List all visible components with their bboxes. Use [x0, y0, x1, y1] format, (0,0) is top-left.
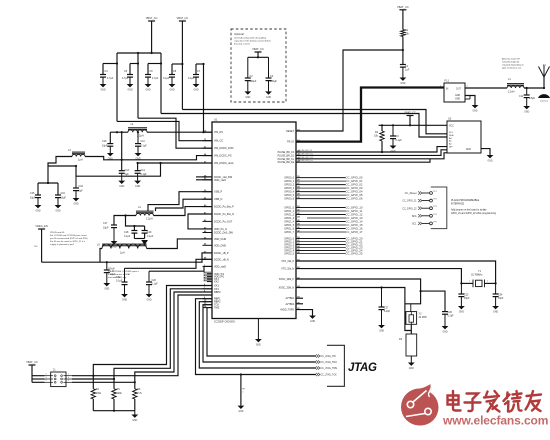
- capacitor C15: [35, 194, 41, 196]
- JTAG pin labels: [316, 354, 320, 357]
- svg-text:GND: GND: [379, 330, 384, 332]
- svg-text:CC_GPIO_06: CC_GPIO_06: [346, 197, 363, 201]
- svg-text:GND: GND: [524, 111, 529, 113]
- svg-text:0.1µF: 0.1µF: [124, 235, 131, 238]
- inductor L5: [102, 245, 147, 247]
- svg-text:6: 6: [68, 380, 69, 382]
- resistor R1: [401, 30, 405, 37]
- wire - L1 to antenna: [524, 87, 544, 89]
- wire - FL1 gnd: [465, 96, 475, 106]
- svg-text:For 45 can be used as GPIO_21: For 45 can be used as GPIO_21 if a: [50, 240, 86, 243]
- svg-text:VBAT_CC: VBAT_CC: [397, 5, 409, 9]
- svg-text:Antenna match (Pi: Antenna match (Pi: [502, 58, 521, 61]
- connector J1: [51, 372, 66, 387]
- svg-text:Use bulk-sizing wafer decoupli: Use bulk-sizing wafer decoupling: [234, 37, 267, 40]
- svg-text:GPIO1_3: GPIO1_3: [284, 218, 294, 220]
- capacitor C10: [107, 143, 113, 145]
- svg-text:For CC2530F, CC2533F parts a: For CC2530F, CC2533F parts a: [108, 270, 140, 273]
- ground - cap pair arrow: [133, 233, 135, 238]
- wire - caps to IC pins: [125, 259, 213, 268]
- svg-text:GND: GND: [238, 411, 243, 413]
- svg-text:Add jumper on the board to iso: Add jumper on the board to isolate: [451, 209, 487, 212]
- svg-text:GND: GND: [459, 311, 464, 313]
- svg-text:0.1µF: 0.1µF: [163, 77, 170, 80]
- svg-text:0.5pF: 0.5pF: [529, 97, 536, 100]
- wire - cap bank bus verticals: [116, 53, 118, 121]
- svg-text:XOSC_32M_P: XOSC_32M_P: [279, 279, 295, 281]
- svg-text:CC_GPIO_21: CC_GPIO_21: [402, 201, 417, 203]
- svg-text:GND: GND: [73, 203, 78, 205]
- wire - J1 to pull resistors: [72, 375, 93, 377]
- wire - GPIO bank 3: [296, 237, 363, 256]
- svg-text:SDA: SDA: [449, 134, 454, 137]
- svg-text:GND: GND: [466, 149, 471, 151]
- watermark text: [448, 391, 542, 412]
- svg-text:C12: C12: [519, 95, 524, 98]
- svg-text:GPIO2_0: GPIO2_0: [284, 239, 294, 241]
- capacitor C8b reset filter: [400, 64, 406, 66]
- svg-text:VBAT_CC: VBAT_CC: [26, 360, 38, 364]
- svg-text:GPIO0_1: GPIO0_1: [284, 181, 294, 183]
- svg-text:3: 3: [46, 377, 47, 379]
- wire - bus to AVDD pin 1: [204, 64, 213, 132]
- ground - FL1: [472, 105, 479, 108]
- resistor R4: [92, 376, 94, 389]
- wire - RF thick trace from IC: [296, 88, 444, 142]
- svg-text:1: 1: [469, 281, 470, 283]
- svg-text:PLACE PROGRAMMABLE: PLACE PROGRAMMABLE: [451, 199, 480, 202]
- svg-text:100k: 100k: [117, 392, 123, 395]
- wire - bus over IC #2: [161, 114, 447, 138]
- wire - L5 ends: [100, 249, 102, 263]
- svg-text:GND: GND: [111, 246, 116, 248]
- svg-text:GPIO0_5: GPIO0_5: [284, 195, 294, 197]
- antenna chip body: [538, 94, 550, 98]
- svg-text:GND: GND: [146, 299, 151, 301]
- svg-text:CC_GPIO_05: CC_GPIO_05: [346, 193, 363, 197]
- svg-text:INTERFACE: INTERFACE: [451, 203, 465, 206]
- svg-text:GPIO2_2: GPIO2_2: [284, 245, 294, 247]
- svg-text:C18: C18: [124, 231, 129, 234]
- svg-text:GND: GND: [455, 99, 460, 101]
- ground - R3: [410, 356, 412, 363]
- svg-text:CC_GPIO_11: CC_GPIO_11: [346, 209, 363, 213]
- svg-text:VDD_xtal2: VDD_xtal2: [214, 265, 227, 268]
- svg-text:GPIO1_1: GPIO1_1: [284, 211, 294, 213]
- capacitor C6: [147, 64, 149, 75]
- svg-text:GND: GND: [104, 288, 109, 290]
- wire - AVTB stubs: [296, 297, 303, 299]
- inductor L4: [136, 212, 154, 214]
- ground - C9: [392, 139, 394, 146]
- svg-text:GND: GND: [472, 110, 477, 112]
- wire - 32k xtal net A: [296, 261, 496, 283]
- svg-text:0.1µF: 0.1µF: [188, 77, 195, 80]
- svg-text:GND: GND: [100, 89, 105, 91]
- svg-text:FL1: FL1: [445, 79, 450, 83]
- wire - FL1 out to L1: [465, 87, 507, 89]
- wire - reset branch R2: [381, 151, 383, 153]
- svg-text:C14: C14: [141, 169, 146, 172]
- svg-text:10µF: 10µF: [103, 227, 109, 230]
- wire - JTAG staircase from IC: [196, 299, 317, 375]
- svg-text:GND: GND: [55, 210, 60, 212]
- wire - bus over IC #1: [182, 110, 447, 134]
- svg-text:CC_GPIO_03: CC_GPIO_03: [346, 186, 363, 190]
- wire - 32k xtal net B: [296, 269, 461, 284]
- svg-text:10µF: 10µF: [61, 197, 67, 200]
- inductor L3: [72, 153, 85, 155]
- crystal Y2 32MHz: [410, 304, 412, 312]
- svg-text:1µF: 1µF: [79, 190, 84, 193]
- wire - VBAT to J1 pins: [32, 375, 45, 377]
- svg-text:DCDC_Po_OUT: DCDC_Po_OUT: [214, 220, 233, 223]
- capacitor C2: [247, 57, 249, 78]
- svg-text:VDD_DvIN: VDD_DvIN: [214, 238, 226, 241]
- resistor R2: [381, 125, 383, 131]
- svg-text:PLUSE_BR_C0: PLUSE_BR_C0: [278, 152, 295, 154]
- svg-text:GPIO2_1: GPIO2_1: [284, 242, 294, 244]
- capacitor C25: [442, 311, 448, 313]
- svg-text:CC_GPIO_10: CC_GPIO_10: [346, 206, 363, 210]
- svg-text:U2: U2: [448, 117, 452, 121]
- svg-text:1µH: 1µH: [120, 252, 125, 255]
- svg-text:100µF: 100µF: [270, 80, 277, 83]
- IC U2 I2C sensor: [447, 121, 481, 153]
- svg-text:AVTB02: AVTB02: [286, 303, 295, 306]
- svg-text:For CC2530 and CC2533 parts, l: For CC2530 and CC2533 parts, leave: [50, 234, 88, 237]
- svg-text:4.7µF: 4.7µF: [152, 77, 159, 80]
- svg-text:GPIO0_2: GPIO0_2: [284, 185, 294, 187]
- svg-text:GPIO0_0: GPIO0_0: [284, 178, 294, 180]
- svg-text:4: 4: [68, 377, 69, 379]
- svg-text:GPIO0_3: GPIO0_3: [284, 188, 294, 190]
- svg-text:GND: GND: [442, 331, 447, 333]
- wire - R1 to reset node: [402, 37, 404, 65]
- svg-text:Optional:: Optional:: [234, 32, 245, 36]
- svg-text:GPIO2_5: GPIO2_5: [284, 254, 294, 256]
- resistor R6: [134, 382, 136, 389]
- svg-text:6.2pF: 6.2pF: [384, 310, 391, 313]
- capacitor C27: [381, 288, 383, 308]
- capacitor C8: [171, 64, 173, 75]
- resistor R5: [113, 379, 115, 389]
- svg-text:CC_JTAG_TDO: CC_JTAG_TDO: [321, 361, 338, 364]
- svg-text:GND: GND: [409, 368, 414, 370]
- svg-text:GND: GND: [487, 160, 492, 162]
- svg-text:GPIO1_2: GPIO1_2: [284, 215, 294, 217]
- svg-text:supply is planned at pin2: supply is planned at pin2: [50, 243, 75, 246]
- inductor L1: [507, 84, 524, 86]
- svg-text:2.2nH: 2.2nH: [508, 91, 515, 94]
- svg-text:VDD_DVB: VDD_DVB: [214, 244, 226, 247]
- svg-text:GND: GND: [256, 344, 261, 346]
- svg-text:2.7k: 2.7k: [137, 392, 142, 395]
- svg-text:C11: C11: [141, 140, 146, 143]
- svg-text:CC_GPIO_01: CC_GPIO_01: [346, 179, 363, 183]
- svg-text:0.1µF: 0.1µF: [141, 145, 148, 148]
- ground - U2: [487, 155, 494, 158]
- wire - IC xtal pins left: [188, 214, 212, 229]
- svg-text:CC_JTAG_TDI: CC_JTAG_TDI: [321, 355, 337, 358]
- svg-text:PLUSE_BR_D1: PLUSE_BR_D1: [278, 155, 295, 157]
- svg-text:www.elecfans.com: www.elecfans.com: [442, 414, 548, 428]
- capacitor C11: [137, 132, 139, 143]
- svg-text:VIN_DV: VIN_DV: [214, 131, 223, 134]
- capacitor C14: [135, 170, 141, 172]
- svg-text:GPIO1_7: GPIO1_7: [284, 232, 294, 234]
- svg-text:GPIO1_4: GPIO1_4: [284, 222, 294, 224]
- svg-text:PLUSE_BR_CL: PLUSE_BR_CL: [278, 159, 295, 161]
- wire - VBAT rail to cap bank: [117, 52, 161, 54]
- svg-text:0.1µF: 0.1µF: [141, 173, 148, 176]
- svg-text:CC_GPIO_13: CC_GPIO_13: [346, 216, 363, 220]
- svg-text:PLUSE_BR_C0: PLUSE_BR_C0: [298, 150, 313, 152]
- svg-text:capacitors if the battery cann: capacitors if the battery cannot deliver: [234, 40, 271, 43]
- svg-text:0.1µF: 0.1µF: [396, 139, 403, 142]
- svg-text:CC_GPIO_22: CC_GPIO_22: [402, 208, 417, 210]
- svg-text:CC_GPIO_15: CC_GPIO_15: [346, 223, 363, 227]
- svg-text:5: 5: [46, 380, 47, 382]
- IC U1 left pin stub cluster marks: [204, 272, 212, 274]
- svg-text:100k: 100k: [96, 392, 102, 395]
- watermark logo: [401, 384, 439, 425]
- wire - U2 gnd: [481, 149, 490, 155]
- svg-text:100µF: 100µF: [250, 80, 257, 83]
- svg-text:AVDD_TXRX: AVDD_TXRX: [280, 309, 294, 312]
- svg-text:10µF: 10µF: [30, 197, 36, 200]
- capacitor C19b: [142, 230, 148, 232]
- wire - L3 left to caps: [48, 157, 72, 184]
- wire - resistor bottom rail: [93, 410, 135, 412]
- wire - 32M xtal net D: [296, 288, 411, 331]
- wire - reset net to IC: [296, 50, 403, 131]
- svg-text:CC_JTAG_TCK: CC_JTAG_TCK: [321, 374, 338, 377]
- wire - GPIO bank 1: [296, 176, 363, 201]
- capacitor C12 antenna: [526, 88, 528, 95]
- test point group: [402, 191, 437, 226]
- svg-text:15pF: 15pF: [498, 297, 504, 300]
- svg-text:SDA: SDA: [412, 215, 417, 218]
- svg-text:GND: GND: [193, 89, 198, 91]
- svg-text:CC_GPIO_17: CC_GPIO_17: [346, 230, 363, 234]
- svg-text:TMS: TMS: [214, 307, 220, 310]
- svg-text:GPIO0_4: GPIO0_4: [284, 192, 294, 194]
- wire - L4 sub-rail: [124, 214, 126, 216]
- svg-text:32 MHz: 32 MHz: [419, 316, 428, 319]
- svg-text:GND: GND: [135, 186, 140, 188]
- svg-text:C17: C17: [103, 222, 108, 225]
- crystal Y1 32.768kHz: [461, 282, 471, 284]
- svg-text:GND: GND: [310, 321, 315, 323]
- test point bracket: [431, 187, 447, 229]
- capacitor C21a: [106, 262, 108, 270]
- svg-text:GND: GND: [455, 95, 460, 97]
- capacitor C13: [119, 170, 125, 172]
- svg-text:GPIO1_5: GPIO1_5: [284, 225, 294, 227]
- wire - L4 left to C17: [114, 216, 136, 226]
- svg-text:2: 2: [487, 281, 488, 283]
- capacitor C7: [195, 64, 197, 75]
- svg-text:1µF: 1µF: [125, 173, 130, 176]
- svg-text:DCDC_xB_P: DCDC_xB_P: [214, 252, 229, 255]
- svg-text:P/N 40:: P/N 40:: [108, 268, 116, 270]
- svg-text:CC_GPIO_16: CC_GPIO_16: [346, 227, 363, 231]
- svg-text:CC_GPIO_25: CC_GPIO_25: [346, 252, 363, 256]
- svg-text:4.7µF: 4.7µF: [122, 77, 129, 80]
- wire - GPIO bank 2: [296, 206, 363, 235]
- svg-text:CC2530F CMOSON: CC2530F CMOSON: [214, 321, 235, 323]
- capacitor C17: [111, 224, 117, 226]
- svg-text:USB_P: USB_P: [214, 191, 223, 194]
- svg-text:GPIO1_6: GPIO1_6: [284, 229, 294, 231]
- svg-text:JTAG: JTAG: [348, 362, 377, 374]
- svg-text:1µH: 1µH: [78, 159, 83, 162]
- ground - resistor rail: [134, 411, 136, 415]
- svg-text:0.1µF: 0.1µF: [152, 283, 159, 286]
- RF filter/balun FL1: [444, 83, 465, 102]
- svg-text:6.2pF: 6.2pF: [448, 315, 455, 318]
- svg-text:VBAT_CC: VBAT_CC: [252, 47, 264, 51]
- svg-text:VCC: VCC: [449, 126, 454, 128]
- svg-text:VDD_Po_In: VDD_Po_In: [214, 228, 228, 231]
- svg-text:XTO_32k_P: XTO_32k_P: [281, 261, 294, 263]
- svg-text:RBP0: RBP0: [214, 291, 221, 294]
- wire - L2 rail to IC pin1: [147, 131, 204, 133]
- capacitor C16: [55, 194, 61, 196]
- svg-text:C10: C10: [102, 140, 107, 143]
- capacitor C3: [268, 57, 270, 78]
- svg-text:XOSC_32M_N: XOSC_32M_N: [279, 288, 295, 290]
- svg-text:GND: GND: [400, 83, 405, 85]
- svg-text:GND: GND: [169, 89, 174, 91]
- svg-text:CC_xReset: CC_xReset: [405, 192, 417, 195]
- JTAG bracket: [327, 345, 344, 386]
- svg-text:0.1µF: 0.1µF: [116, 280, 123, 283]
- svg-text:CC_GPIO_04: CC_GPIO_04: [346, 190, 363, 194]
- capacitor C19: [75, 166, 77, 188]
- svg-text:0.1µF: 0.1µF: [147, 235, 154, 238]
- svg-text:PLUSE_BR_D-a: PLUSE_BR_D-a: [298, 160, 314, 162]
- capacitor C23: [460, 283, 462, 294]
- capacitor C24: [495, 283, 497, 294]
- svg-text:P/N 45 and 46:: P/N 45 and 46:: [50, 232, 65, 234]
- svg-text:GPIO2_3: GPIO2_3: [284, 248, 294, 250]
- wire - L4 right to IC: [154, 207, 213, 216]
- wire - VREG to IC: [42, 253, 212, 262]
- capacitor C5: [129, 64, 131, 75]
- svg-text:GND: GND: [127, 89, 132, 91]
- svg-text:type of antenna use: type of antenna use: [502, 67, 522, 70]
- IC U1 CC2530 body: [212, 122, 296, 319]
- ground - JTAG bottom wire: [240, 373, 242, 375]
- capacitor C9: [392, 125, 394, 136]
- svg-text:RESET: RESET: [286, 131, 294, 133]
- capacitor C18: [131, 230, 137, 232]
- svg-text:VIN_DCDC_PS: VIN_DCDC_PS: [214, 155, 232, 158]
- capacitor C4: [102, 64, 104, 75]
- svg-text:antenna: antenna: [540, 100, 549, 103]
- capacitor C22a: [124, 268, 126, 282]
- wire - U2 VCC rail: [379, 124, 447, 126]
- svg-text:GND: GND: [132, 420, 137, 422]
- ground - IC bottom: [257, 319, 259, 340]
- svg-text:CC_GPIO_12: CC_GPIO_12: [346, 213, 363, 217]
- svg-text:U1: U1: [214, 118, 218, 122]
- svg-text:WP: WP: [449, 147, 453, 149]
- svg-text:XTO_32k_N: XTO_32k_N: [281, 269, 294, 271]
- svg-text:IN: IN: [446, 89, 449, 91]
- svg-text:DCDC_Po_Bst_P: DCDC_Po_Bst_P: [214, 206, 234, 209]
- svg-text:GND: GND: [266, 97, 271, 99]
- svg-text:DCDC_DvS_DW: DCDC_DvS_DW: [214, 232, 234, 235]
- svg-text:1µF: 1µF: [405, 69, 410, 72]
- svg-text:DCDC_xB_N: DCDC_xB_N: [214, 258, 229, 261]
- antenna E1: [543, 76, 545, 88]
- svg-text:USB_N: USB_N: [214, 198, 223, 201]
- svg-text:GPIO_21 and GPIO_22 while prog: GPIO_21 and GPIO_22 while programming: [451, 212, 497, 215]
- svg-text:C19: C19: [79, 185, 84, 188]
- svg-text:SCL: SCL: [412, 224, 417, 226]
- svg-text:GND: GND: [145, 89, 150, 91]
- svg-text:AVTB01: AVTB01: [286, 297, 295, 300]
- svg-text:XX2: XX2: [214, 281, 219, 284]
- svg-text:VIN_DCDC_DVD: VIN_DCDC_DVD: [214, 147, 234, 150]
- svg-text:CC_GPIO_00: CC_GPIO_00: [346, 176, 363, 180]
- svg-text:C19: C19: [147, 231, 152, 234]
- svg-text:DCDC_Po_Bst_N: DCDC_Po_Bst_N: [214, 213, 234, 216]
- resistor R3 bias: [410, 324, 412, 334]
- svg-text:GND: GND: [245, 97, 250, 99]
- svg-text:1: 1: [46, 374, 47, 376]
- svg-text:GND: GND: [122, 299, 127, 301]
- wire - node to C19: [48, 165, 76, 167]
- svg-text:RF_IO: RF_IO: [287, 142, 294, 144]
- wire - pull nets staircase to IC: [93, 295, 212, 376]
- svg-text:GPIO0_6: GPIO0_6: [284, 199, 294, 201]
- svg-text:GND: GND: [35, 210, 40, 212]
- svg-text:10µF: 10µF: [102, 145, 108, 148]
- svg-text:VBAT_CC: VBAT_CC: [404, 111, 416, 115]
- svg-text:15pF: 15pF: [464, 297, 470, 300]
- svg-text:GPIO2_4: GPIO2_4: [284, 251, 294, 253]
- svg-text:C13: C13: [125, 169, 130, 172]
- svg-text:CC_GPIO_14: CC_GPIO_14: [346, 220, 363, 224]
- IC U1 right pin labels: [278, 130, 301, 312]
- ground - AVDD stub: [309, 316, 316, 319]
- wire - cap pair link: [38, 182, 58, 184]
- svg-text:CC_GPIO_02: CC_GPIO_02: [346, 183, 363, 187]
- svg-text:VREG_EN: VREG_EN: [35, 224, 48, 228]
- svg-text:VBAT_CC: VBAT_CC: [177, 16, 189, 20]
- svg-text:2: 2: [68, 374, 69, 376]
- IC U1 left pin stubs and labels: [203, 131, 235, 310]
- svg-text:C16: C16: [61, 192, 66, 195]
- svg-text:VIN_CC: VIN_CC: [214, 140, 223, 143]
- optional bulk decoupling box (dashed): [231, 29, 286, 102]
- svg-text:VBAT_CC: VBAT_CC: [146, 16, 158, 20]
- svg-text:PLUSE_BR_D1a: PLUSE_BR_D1a: [298, 153, 314, 155]
- svg-text:the peak current: the peak current: [234, 43, 250, 46]
- wire - 32M xtal net C: [296, 279, 421, 304]
- inductor L2: [110, 131, 128, 133]
- svg-text:OUT: OUT: [456, 89, 461, 91]
- svg-text:GND: GND: [119, 186, 124, 188]
- svg-text:pin 45 unconnected (DVP-x2 and: pin 45 unconnected (DVP-x2 and P45): [50, 237, 88, 240]
- svg-text:GPIO1_0: GPIO1_0: [284, 208, 294, 210]
- svg-text:VDD_xtal1: VDD_xtal1: [214, 179, 227, 182]
- svg-text:4.7µF: 4.7µF: [107, 77, 114, 80]
